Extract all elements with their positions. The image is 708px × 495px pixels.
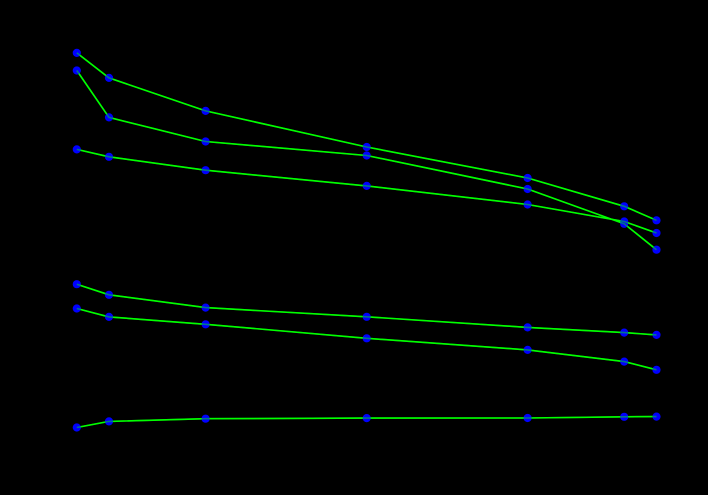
series L3 line (third curve) [77,149,657,233]
series L1 markers [73,49,661,225]
series M2 line overlay [77,309,657,370]
series B line overlay [77,417,657,428]
series M1 line overlay [77,284,657,335]
series L1 line overlay (streak across markers) [77,53,657,220]
series M2 line (fifth curve) [77,309,657,370]
series L2 line overlay [77,71,657,250]
series B line (bottom flat curve) [77,417,657,428]
series L1 line (top curve) [77,53,657,220]
series M1 line (fourth curve) [77,284,657,335]
series L2 line (second curve, steep start) [77,71,657,250]
series M1 markers [73,280,661,339]
series L2 markers [73,66,661,253]
series B markers [73,413,661,432]
series M2 markers [73,304,661,374]
series L3 line overlay [77,149,657,233]
series L3 markers [73,145,661,237]
